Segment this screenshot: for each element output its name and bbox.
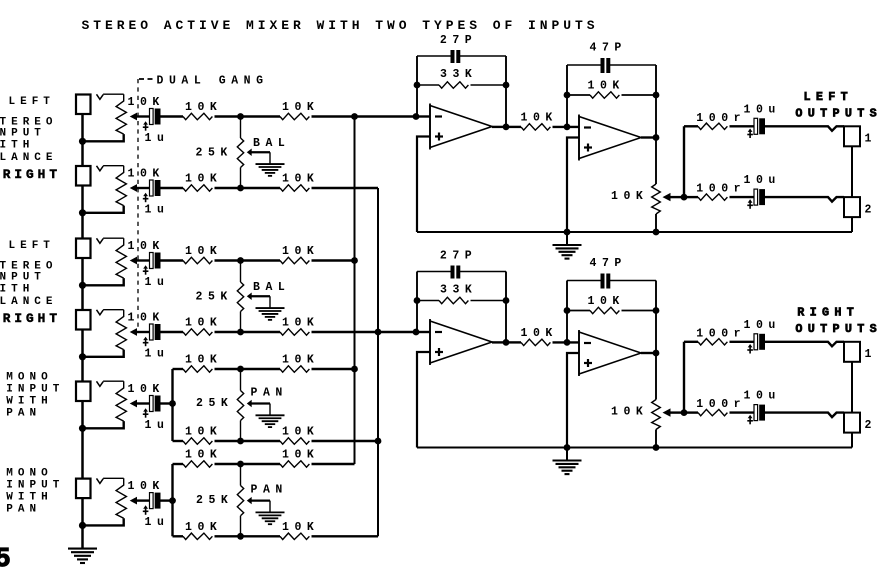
cap polarity + (out1 right channel amp)	[749, 347, 751, 354]
input jack J4 (right, stereo 2)	[76, 310, 91, 330]
svg-text:RIGHT: RIGHT	[3, 167, 61, 182]
svg-text:10K: 10K	[282, 317, 319, 330]
resistor 10K first (row C ch2 left)	[183, 257, 212, 263]
jack tip tick + wire (row 260.5)	[97, 238, 104, 243]
junction fb right (right channel amp)	[653, 307, 660, 314]
BAL1 pot lead	[240, 168, 242, 189]
op-amp U4 (right channel amp)	[579, 332, 641, 374]
cap polarity + (out1 left channel amp)	[749, 131, 751, 138]
svg-text:10K: 10K	[185, 426, 222, 439]
wire bottom branch lead (mono 2)	[173, 535, 184, 537]
wire cap to R (row D ch2 right)	[160, 331, 183, 333]
svg-text:RIGHT: RIGHT	[797, 305, 859, 319]
svg-text:25K: 25K	[196, 494, 233, 507]
PAN-mono 2 wiper arrow	[247, 497, 252, 504]
svg-text:OUTPUTS: OUTPUTS	[795, 322, 882, 336]
feedback loop wires 47P/10K (right channel amp)	[566, 281, 568, 343]
balance pot 25K (stereo 1)	[240, 117, 242, 139]
svg-text:1u: 1u	[145, 276, 170, 289]
junction jack bus (row 188)	[79, 209, 86, 216]
junction fb left (left channel amp)	[564, 92, 571, 99]
cap polarity + (out2 right channel amp)	[749, 417, 751, 424]
svg-text:10u: 10u	[744, 390, 781, 403]
resistor 10K bottom-right (mono 1)	[280, 438, 309, 444]
wire cap to R (row C ch2 left)	[160, 259, 183, 261]
cap polarity + (row 260.5)	[145, 268, 147, 275]
svg-text:5: 5	[0, 545, 11, 571]
svg-text:WITH: WITH	[6, 491, 52, 503]
junction node (row A ch1 left)	[237, 113, 244, 120]
jack sleeve wire (row 188)	[81, 186, 84, 213]
junction bottom (mono 1)	[237, 438, 244, 445]
svg-text:10K: 10K	[588, 80, 625, 93]
cap polarity + (row 332)	[145, 339, 147, 346]
svg-text:PAN: PAN	[6, 407, 41, 419]
junction op2 out (right channel amp)	[653, 350, 660, 357]
wire top branch lead (mono 2)	[173, 463, 184, 465]
jack tip tick + wire (row 116.5)	[97, 94, 104, 99]
wire mid (row D ch2 right)	[215, 331, 281, 333]
wire to bus (row A ch1 left)	[312, 115, 417, 117]
wire to op-amp 2 (right channel amp)	[553, 341, 580, 343]
wire bottom mid (mono 1)	[215, 440, 281, 442]
wire 10K fb lead left (left channel amp)	[567, 94, 590, 96]
junction rail pot (right channel amp)	[653, 444, 660, 451]
svg-text:10K: 10K	[282, 245, 319, 258]
resistor 10K second (row B ch1 right)	[280, 185, 309, 191]
wire to cap (out2 left channel amp)	[730, 196, 755, 198]
jack sleeve wire (row 500.6)	[81, 498, 84, 525]
wire cap to R (row A ch1 left)	[160, 115, 183, 117]
svg-text:10K: 10K	[185, 317, 222, 330]
svg-text:LANCE: LANCE	[0, 152, 58, 164]
junction op1 out (right channel amp)	[503, 339, 510, 346]
svg-text:MONO: MONO	[6, 468, 52, 480]
BAL2 pot lead	[240, 312, 242, 333]
branch verticals (mono 1)	[171, 369, 173, 441]
resistor 100r (out1 left channel amp)	[698, 123, 727, 129]
dual-gang dashed link line	[137, 79, 139, 331]
svg-text:1: 1	[865, 348, 877, 361]
svg-text:10K: 10K	[611, 190, 648, 203]
svg-text:10u: 10u	[744, 319, 781, 332]
svg-text:STEREO ACTIVE MIXER WITH TWO T: STEREO ACTIVE MIXER WITH TWO TYPES OF IN…	[82, 18, 599, 33]
wire mid (row C ch2 left)	[215, 259, 281, 261]
svg-text:10K: 10K	[282, 521, 319, 534]
junction op2 inverting node (left channel amp)	[564, 124, 571, 131]
capacitor 1u (row 116.5)	[150, 109, 154, 125]
volume pot 10K body (right channel amp)	[652, 400, 661, 430]
op-amp U1 (left channel amp)	[430, 106, 492, 148]
potentiometer 10K body (row 116.5)	[116, 94, 126, 134]
op2 noninverting input to rail (right channel amp)	[567, 353, 579, 448]
pot bottom lead to bus (row 260.5)	[83, 278, 124, 285]
op-amp U3 (right channel amp)	[430, 321, 492, 363]
output jack 2 (left channel amp)	[844, 197, 860, 217]
capacitor 10u (out2 right channel amp)	[754, 405, 758, 421]
wire 33K lead right (right channel amp)	[471, 300, 507, 302]
junction fb right (left channel amp)	[653, 92, 660, 99]
junction 33K right (right channel amp)	[503, 297, 510, 304]
svg-text:10K: 10K	[185, 449, 222, 462]
svg-text:25K: 25K	[196, 291, 233, 304]
pot bottom lead to bus (row 403.5)	[83, 421, 124, 428]
input jack J2 (right, stereo 1)	[76, 166, 91, 186]
wire lead (out1 left channel amp)	[684, 125, 698, 127]
svg-text:10K: 10K	[185, 173, 222, 186]
svg-text:10K: 10K	[588, 295, 625, 308]
cap polarity + (row 116.5)	[145, 124, 147, 131]
wire op2 out (left channel amp)	[641, 136, 656, 138]
capacitor 10u (out2 left channel amp)	[754, 189, 758, 205]
wire jack2 to rail (right channel amp)	[851, 433, 853, 448]
svg-text:1u: 1u	[145, 347, 170, 360]
wire to bus (row C ch2 left)	[312, 259, 355, 261]
op1 noninverting input to rail (left channel amp)	[417, 137, 430, 233]
svg-text:1u: 1u	[145, 516, 170, 529]
capacitor 1u (row 403.5)	[150, 396, 154, 412]
svg-text:NPUT: NPUT	[0, 271, 46, 283]
junction jack bus (row 332)	[79, 353, 86, 360]
resistor 10K second (row A ch1 left)	[280, 113, 309, 119]
svg-text:10K: 10K	[282, 354, 319, 367]
pan pot 25K (mono 1)	[240, 369, 242, 391]
pot bottom lead to bus (row 188)	[83, 206, 124, 213]
op2 noninverting input to rail (left channel amp)	[567, 138, 579, 233]
wiper out wire (left channel amp)	[669, 196, 684, 198]
svg-text:10K: 10K	[282, 101, 319, 114]
capacitor 1u (row 500.6)	[150, 493, 154, 509]
svg-text:10K: 10K	[128, 96, 165, 109]
junction wiper node (right channel amp)	[681, 409, 688, 416]
op-amp U2 (left channel amp)	[579, 117, 641, 159]
balance pot 25K (stereo 2)	[240, 261, 242, 283]
svg-text:10u: 10u	[744, 174, 781, 187]
resistor 10K top-right (mono 1)	[280, 366, 309, 372]
BAL1 pot zigzag	[237, 138, 243, 167]
jack tip tick + wire (row 188)	[97, 166, 104, 171]
wire cap to jack with tip hook (out2 right channel amp)	[765, 413, 844, 418]
wire to cap (out1 left channel amp)	[730, 125, 755, 127]
junction 33K left (left channel amp)	[414, 82, 421, 89]
potentiometer 10K body (row 500.6)	[116, 478, 126, 518]
ground (BAL1)	[256, 163, 285, 165]
PAN-mono 2 pot lead	[240, 516, 242, 537]
junction summing node (left channel amp)	[413, 113, 420, 120]
svg-text:10u: 10u	[744, 103, 781, 116]
wire bottom to bus (mono 2)	[312, 535, 379, 537]
svg-text:10K: 10K	[185, 521, 222, 534]
cap polarity + (row 188)	[145, 195, 147, 202]
resistor 10K second (row D ch2 right)	[280, 329, 309, 335]
svg-text:25K: 25K	[196, 147, 233, 160]
pot wiper arrow (row 332)	[130, 328, 137, 336]
pot wiper arrow (row 188)	[130, 184, 137, 192]
wire top to bus (mono 2)	[312, 463, 355, 465]
svg-text:10K: 10K	[185, 101, 222, 114]
input jack J6 (mono 2)	[76, 479, 91, 499]
junction 33K left (right channel amp)	[414, 297, 421, 304]
svg-text:BAL: BAL	[253, 281, 290, 294]
op1 noninverting input to rail (right channel amp)	[417, 352, 430, 448]
resistor 10K first (row D ch2 right)	[183, 329, 212, 335]
wire top branch lead (mono 1)	[173, 368, 184, 370]
wire down to volume pot (right channel amp)	[655, 311, 657, 400]
resistor 10K first (row A ch1 left)	[183, 113, 212, 119]
svg-text:10K: 10K	[521, 111, 558, 124]
wire 33K lead left (left channel amp)	[417, 84, 439, 86]
jack sleeve wire (row 116.5)	[81, 114, 84, 141]
wire lead (out2 right channel amp)	[684, 411, 698, 413]
branch verticals (mono 2)	[171, 464, 173, 536]
capacitor 1u (row 260.5)	[150, 253, 154, 269]
wire cap to jack with tip hook (out2 left channel amp)	[765, 197, 844, 202]
wire into op-amp 1 (left channel amp)	[416, 115, 430, 117]
svg-text:NPUT: NPUT	[0, 127, 46, 139]
volume pot 10K body (left channel amp)	[652, 184, 661, 214]
wire mid (row A ch1 left)	[215, 115, 281, 117]
junction wiper node (left channel amp)	[681, 194, 688, 201]
svg-text:27P: 27P	[440, 250, 477, 263]
wiper wire (row 332)	[136, 331, 150, 333]
right mix bus vertical	[377, 188, 379, 536]
resistor 10K bottom-left (mono 1)	[183, 438, 212, 444]
svg-text:MONO: MONO	[6, 372, 52, 384]
pot wiper arrow (row 403.5)	[130, 400, 137, 408]
svg-text:10K: 10K	[282, 449, 319, 462]
dual-gang label leader dashes	[139, 78, 155, 80]
wire bottom branch lead (mono 1)	[173, 440, 184, 442]
wire pot to rail (right channel amp)	[655, 430, 657, 448]
resistor 33K (left channel amp)	[439, 82, 468, 88]
resistor 100r (out2 left channel amp)	[698, 194, 727, 200]
capacitor 27P (left channel amp)	[451, 50, 455, 63]
output jack 1 (left channel amp)	[844, 126, 860, 146]
wire 10K fb lead right (right channel amp)	[622, 310, 657, 312]
junction rail pot (left channel amp)	[653, 229, 660, 236]
junction jack bus (row 403.5)	[79, 425, 86, 432]
wire pot to rail (left channel amp)	[655, 214, 657, 232]
jack common ground bus	[81, 141, 84, 166]
PAN-mono 2 wiper wire to ground	[251, 499, 270, 501]
potentiometer 10K body (row 260.5)	[116, 238, 126, 278]
capacitor 47P (left channel amp)	[601, 58, 605, 73]
output jack 2 (right channel amp)	[844, 413, 860, 433]
junction fb left (right channel amp)	[564, 307, 571, 314]
capacitor 1u (row 188)	[150, 180, 154, 196]
wiper wire (row 260.5)	[136, 259, 150, 261]
volume pot wiper arrow (right channel amp)	[663, 408, 671, 416]
wire to interstage R (right channel amp)	[506, 341, 521, 343]
ground stub (right channel amp)	[566, 448, 568, 460]
wire mid (row B ch1 right)	[215, 187, 281, 189]
svg-text:100r: 100r	[696, 112, 746, 125]
wire cap to node (mono 1)	[160, 402, 173, 404]
jack sleeve wire (row 332)	[81, 330, 84, 357]
wiper wire (row 116.5)	[136, 115, 150, 117]
ground (amp rail right channel amp)	[553, 459, 582, 461]
wire 10K fb lead left (right channel amp)	[567, 310, 590, 312]
pot bottom lead to bus (row 332)	[83, 350, 124, 357]
svg-text:10K: 10K	[128, 312, 165, 325]
svg-text:100r: 100r	[696, 398, 746, 411]
wire top mid (mono 2)	[215, 463, 281, 465]
pot bottom lead to bus (row 500.6)	[83, 518, 124, 525]
svg-text:33K: 33K	[440, 68, 477, 81]
potentiometer 10K body (row 332)	[116, 310, 126, 350]
svg-text:10K: 10K	[611, 406, 648, 419]
jack tip tick + wire (row 403.5)	[97, 381, 104, 386]
wire to op-amp 2 (left channel amp)	[553, 126, 580, 128]
svg-text:10K: 10K	[282, 426, 319, 439]
wire bottom mid (mono 2)	[215, 535, 281, 537]
ground (PAN-mono 1)	[256, 414, 285, 416]
svg-text:LEFT: LEFT	[9, 240, 55, 252]
wire op1 out (right channel amp)	[492, 341, 506, 343]
svg-text:10K: 10K	[128, 168, 165, 181]
wire op2 out (right channel amp)	[641, 352, 656, 354]
svg-text:BAL: BAL	[253, 137, 290, 150]
junction node (row B ch1 right)	[237, 185, 244, 192]
junction op2 out (left channel amp)	[653, 134, 660, 141]
svg-text:PAN: PAN	[6, 503, 41, 515]
svg-text:1: 1	[865, 133, 877, 146]
wiper node (mono 1)	[169, 400, 176, 407]
pot bottom lead to bus (row 116.5)	[83, 134, 124, 141]
vertical to output 1 (right channel amp)	[683, 342, 685, 413]
resistor 10K bottom-right (mono 2)	[280, 533, 309, 539]
wire cap to jack with tip hook (out1 left channel amp)	[765, 126, 844, 131]
junction node (row C ch2 left)	[237, 257, 244, 264]
junction jack bus (row 116.5)	[79, 138, 86, 145]
wire 33K lead right (left channel amp)	[471, 84, 507, 86]
wire to interstage R (left channel amp)	[506, 126, 521, 128]
resistor 10K top-left (mono 1)	[183, 366, 212, 372]
PAN-mono 1 wiper wire to ground	[251, 402, 270, 404]
main ground (input bus)	[68, 548, 97, 550]
wire to cap (out1 right channel amp)	[730, 341, 755, 343]
capacitor 10u (out1 right channel amp)	[754, 334, 758, 350]
svg-text:2: 2	[865, 204, 877, 217]
svg-text:LEFT: LEFT	[9, 96, 55, 108]
wire to bus (row D ch2 right)	[312, 331, 417, 333]
PAN-mono 1 pot lead	[240, 421, 242, 442]
wire to bus (row B ch1 right)	[312, 187, 379, 189]
bottom rail (right channel amp)	[417, 447, 852, 449]
vertical to output 1 (left channel amp)	[683, 126, 685, 197]
left mix bus vertical	[354, 117, 356, 465]
capacitor 47P (right channel amp)	[601, 274, 605, 289]
output jack 1 (right channel amp)	[844, 342, 860, 362]
svg-text:10K: 10K	[128, 383, 165, 396]
pot wiper arrow (row 116.5)	[130, 113, 137, 121]
resistor 10K feedback (right channel amp)	[590, 307, 619, 313]
svg-text:25K: 25K	[196, 397, 233, 410]
capacitor 27P (right channel amp)	[451, 266, 455, 279]
wire lead (out2 left channel amp)	[684, 196, 698, 198]
wire 33K lead left (right channel amp)	[417, 300, 439, 302]
junction jack bus (row 500.6)	[79, 522, 86, 529]
svg-text:1u: 1u	[145, 203, 170, 216]
BAL1 wiper wire to ground	[251, 151, 270, 153]
wire lead (out1 right channel amp)	[684, 341, 698, 343]
svg-text:1u: 1u	[145, 132, 170, 145]
feedback loop wires 27P/33K (left channel amp)	[416, 56, 418, 117]
svg-text:WITH: WITH	[6, 395, 52, 407]
svg-text:10K: 10K	[521, 327, 558, 340]
jack tip tick + wire (row 500.6)	[97, 478, 104, 483]
pot wiper arrow (row 500.6)	[130, 497, 137, 505]
resistor 10K first (row B ch1 right)	[183, 185, 212, 191]
jack sleeve wire (row 403.5)	[81, 401, 84, 428]
svg-text:33K: 33K	[440, 283, 477, 296]
pan pot 25K (mono 2)	[240, 464, 242, 486]
junction bus L row C	[351, 257, 358, 264]
potentiometer 10K body (row 188)	[116, 166, 126, 206]
junction node (row D ch2 right)	[237, 329, 244, 336]
BAL1 wiper arrow	[247, 149, 252, 156]
svg-text:LEFT: LEFT	[804, 90, 854, 104]
junction 33K right (left channel amp)	[503, 82, 510, 89]
junction bottom (mono 2)	[237, 533, 244, 540]
feedback loop wires 47P/10K (left channel amp)	[566, 65, 568, 127]
svg-text:PAN: PAN	[251, 484, 288, 497]
resistor 10K top-left (mono 2)	[183, 461, 212, 467]
resistor 33K (right channel amp)	[439, 297, 468, 303]
junction op2 inverting node (right channel amp)	[564, 339, 571, 346]
wire top mid (mono 1)	[215, 368, 281, 370]
wiper out wire (right channel amp)	[669, 411, 684, 413]
svg-text:10K: 10K	[185, 354, 222, 367]
wire jack2 to rail (left channel amp)	[851, 217, 853, 232]
junction bus L row A	[351, 113, 358, 120]
ground stub (left channel amp)	[566, 232, 568, 244]
ground (BAL2)	[256, 307, 285, 309]
wire 10K fb lead right (left channel amp)	[622, 94, 657, 96]
resistor 10K interstage (right channel amp)	[521, 339, 550, 345]
jack sleeve wire (row 260.5)	[81, 258, 84, 285]
wire cap to jack with tip hook (out1 right channel amp)	[765, 342, 844, 347]
svg-text:10K: 10K	[128, 240, 165, 253]
junction bus R row D	[375, 329, 382, 336]
resistor 10K bottom-left (mono 2)	[183, 533, 212, 539]
junction top (mono 1)	[237, 366, 244, 373]
wire jack1 to jack2 (left channel amp)	[851, 146, 853, 197]
svg-text:47P: 47P	[590, 42, 627, 55]
svg-text:10K: 10K	[282, 173, 319, 186]
cap polarity + (row 500.6)	[145, 508, 147, 515]
wire down to volume pot (left channel amp)	[655, 95, 657, 184]
wire cap to node (mono 2)	[160, 499, 173, 501]
resistor 10K top-right (mono 2)	[280, 461, 309, 467]
wiper node (mono 2)	[169, 497, 176, 504]
svg-text:100r: 100r	[696, 183, 746, 196]
svg-text:INPUT: INPUT	[6, 383, 64, 395]
junction bus R mono1 bottom	[375, 438, 382, 445]
svg-text:RIGHT: RIGHT	[3, 311, 61, 326]
PAN-mono 2 pot zigzag	[237, 486, 243, 516]
junction summing node (right channel amp)	[413, 329, 420, 336]
junction bus L mono1 top	[351, 366, 358, 373]
wire into op-amp 1 (right channel amp)	[416, 331, 430, 333]
svg-text:2: 2	[865, 419, 877, 432]
junction rail ground (right channel amp)	[564, 444, 571, 451]
svg-text:PAN: PAN	[251, 387, 288, 400]
BAL2 wiper arrow	[247, 293, 252, 300]
svg-text:100r: 100r	[696, 327, 746, 340]
BAL2 wiper wire to ground	[251, 295, 270, 297]
svg-text:10K: 10K	[185, 245, 222, 258]
